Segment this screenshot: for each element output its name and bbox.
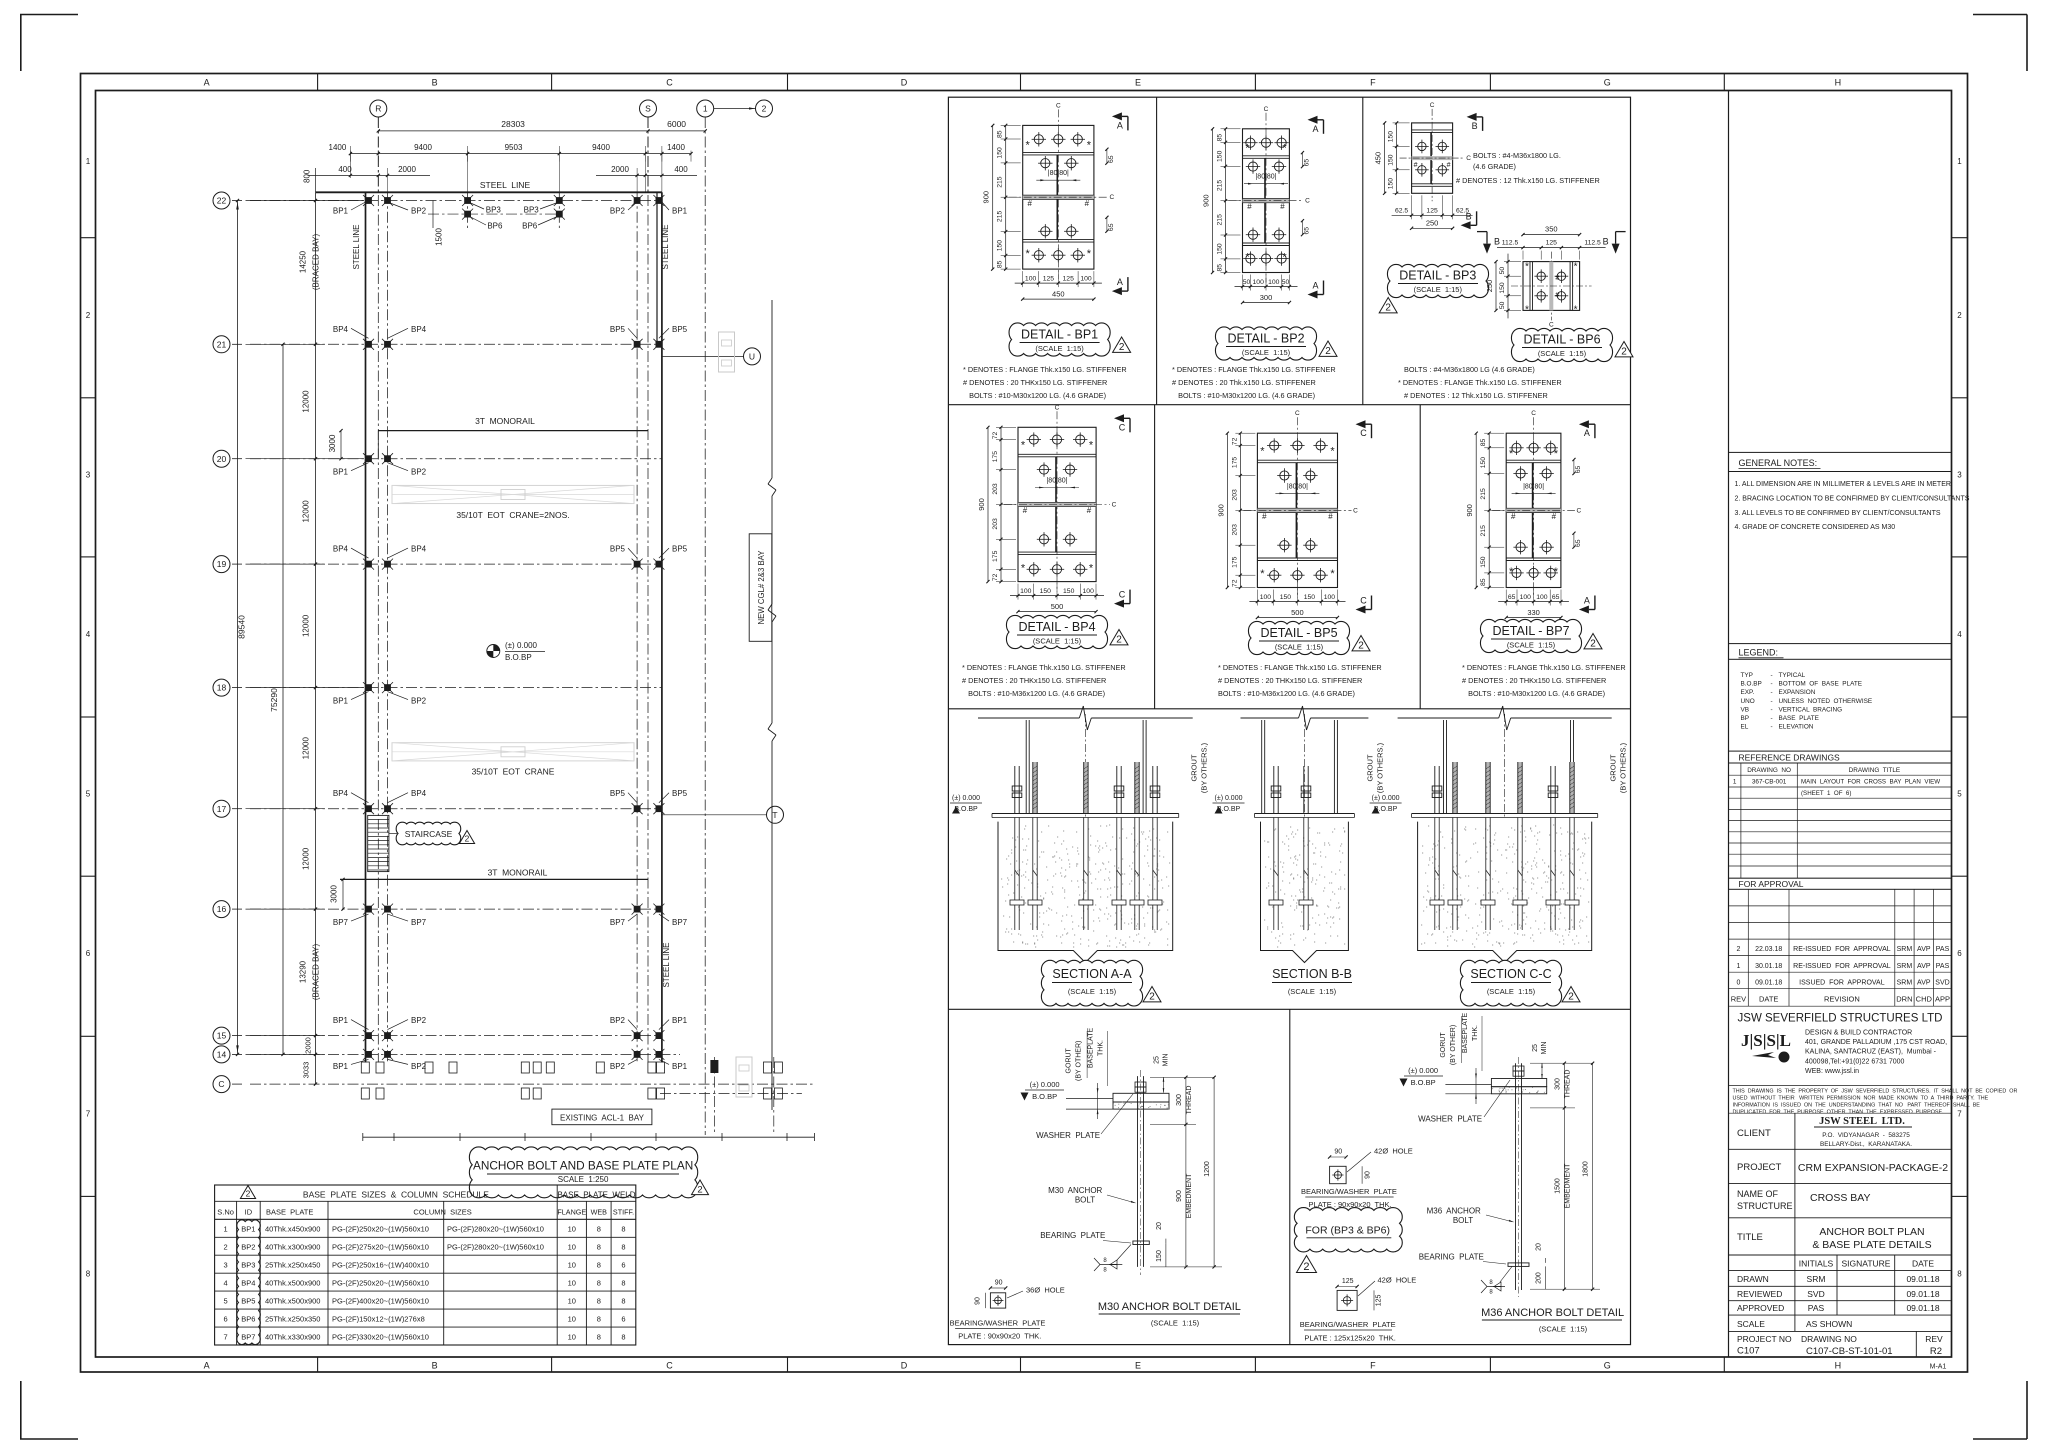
svg-text:1: 1	[224, 1225, 228, 1234]
svg-text:6: 6	[1957, 949, 1962, 958]
svg-text:GENERAL NOTES:: GENERAL NOTES:	[1739, 458, 1818, 468]
svg-text:STRUCTURE: STRUCTURE	[1737, 1201, 1793, 1211]
svg-text:150: 150	[997, 147, 1004, 159]
title block: signature rows	[1729, 1255, 1952, 1331]
svg-text:BOLT: BOLT	[1075, 1196, 1095, 1205]
svg-text:BASE PLATE: BASE PLATE	[1779, 715, 1819, 722]
detail DETAIL - BP5: notes	[1218, 663, 1382, 698]
detail DETAIL - BP1: plate	[1009, 102, 1115, 279]
svg-text:(SCALE 1:15): (SCALE 1:15)	[1539, 1325, 1588, 1334]
svg-text:M36 ANCHOR BOLT DETAIL: M36 ANCHOR BOLT DETAIL	[1481, 1307, 1624, 1319]
svg-text:(BRACED BAY): (BRACED BAY)	[312, 234, 321, 291]
svg-text:BP2: BP2	[610, 1016, 626, 1025]
svg-text:*: *	[1525, 304, 1529, 315]
svg-text:BP6: BP6	[522, 222, 538, 231]
svg-text:(SHEET 1 OF 6): (SHEET 1 OF 6)	[1801, 790, 1851, 797]
M36 bearing plate	[1508, 1263, 1529, 1267]
svg-text:(±) 0.000: (±) 0.000	[505, 641, 538, 650]
svg-text:B: B	[432, 78, 438, 88]
svg-text:300: 300	[1260, 293, 1273, 302]
svg-text:BASE PLATE SIZES & COLUMN: BASE PLATE SIZES & COLUMN SCHEDULE	[303, 1190, 489, 1200]
svg-text:25Thk.x250x450: 25Thk.x250x450	[265, 1261, 320, 1270]
plan: top dimension 28303 and 6000	[377, 119, 707, 133]
svg-text:20: 20	[1156, 1222, 1163, 1230]
svg-text:PG-(2F)400x20~(1W)560x10: PG-(2F)400x20~(1W)560x10	[332, 1297, 429, 1306]
svg-text:900: 900	[1202, 194, 1211, 207]
svg-text:THIS DRAWING IS THE PROPER: THIS DRAWING IS THE PROPERTY OF JSW SEVE…	[1733, 1089, 2018, 1095]
svg-text:2: 2	[1590, 639, 1596, 650]
svg-text:DUPLICATED FOR THE PURPOSE: DUPLICATED FOR THE PURPOSE OTHER THAN TH…	[1733, 1110, 1944, 1116]
svg-text:125: 125	[1063, 276, 1075, 283]
svg-text:ID: ID	[245, 1208, 253, 1217]
svg-text:S.No: S.No	[217, 1208, 234, 1217]
detail BP3: section arrows B	[1467, 113, 1477, 121]
svg-text:2: 2	[224, 1243, 228, 1252]
svg-text:BOLTS : #4-M36x1800 LG.: BOLTS : #4-M36x1800 LG.	[1473, 151, 1561, 160]
plan: level marker 0.000 B.O.BP	[487, 641, 545, 662]
svg-text:(SCALE 1:15): (SCALE 1:15)	[1507, 641, 1556, 650]
svg-text:C: C	[1055, 404, 1060, 411]
svg-text:1500: 1500	[435, 228, 444, 246]
svg-text:85: 85	[1217, 264, 1224, 272]
section A-A: concrete block	[998, 822, 1173, 963]
svg-text:PG-(2F)280x20~(1W)560x10: PG-(2F)280x20~(1W)560x10	[447, 1225, 544, 1234]
svg-text:72: 72	[992, 432, 999, 440]
svg-text:100: 100	[1020, 588, 1032, 595]
svg-text:M-A1: M-A1	[1930, 1364, 1947, 1371]
svg-text:900: 900	[1465, 504, 1474, 517]
svg-text:2: 2	[1358, 641, 1364, 652]
svg-text:#: #	[1555, 275, 1559, 282]
svg-text:8: 8	[597, 1297, 601, 1306]
svg-text:C: C	[1305, 198, 1310, 205]
svg-text:JSW SEVERFIELD STRUCTURES LTD: JSW SEVERFIELD STRUCTURES LTD	[1738, 1013, 1943, 1025]
svg-text:GROUT: GROUT	[1190, 754, 1199, 782]
svg-text:BEARING/WASHER PLATE: BEARING/WASHER PLATE	[1301, 1187, 1397, 1196]
section C-C: concrete block	[1418, 822, 1592, 963]
detail DETAIL - BP5: plate	[1243, 410, 1358, 597]
svg-text:H: H	[1835, 1361, 1842, 1371]
svg-text:#: #	[1552, 512, 1557, 521]
plan: horizontal grid lines with bubbles	[213, 192, 814, 1093]
svg-text:APPROVED: APPROVED	[1737, 1303, 1784, 1313]
svg-text:B: B	[1603, 237, 1609, 247]
svg-text:PG-(2F)150x12~(1W)276x8: PG-(2F)150x12~(1W)276x8	[332, 1315, 425, 1324]
svg-text:# DENOTES : 20 THKx150 LG. STI: # DENOTES : 20 THKx150 LG. STIFFENER	[1218, 676, 1362, 685]
svg-text:COLUMN SIZES: COLUMN SIZES	[413, 1208, 471, 1217]
svg-text:*: *	[1554, 448, 1559, 460]
detail BP6: dimensions	[1485, 225, 1606, 319]
svg-text:WEB: www.jssl.in: WEB: www.jssl.in	[1805, 1068, 1859, 1075]
title block: outer column	[1728, 91, 1730, 1358]
svg-text:65: 65	[1575, 466, 1582, 474]
svg-text:42Ø HOLE: 42Ø HOLE	[1378, 1276, 1417, 1285]
svg-text:A: A	[1584, 596, 1590, 606]
svg-text:BP4: BP4	[333, 325, 349, 334]
detail DETAIL - BP1: section arrows	[1112, 112, 1122, 120]
svg-text:3. ALL LEVELS TO BE CONFIRMED: 3. ALL LEVELS TO BE CONFIRMED BY CLIENT/…	[1735, 510, 1941, 517]
svg-text:STAIRCASE: STAIRCASE	[405, 829, 453, 839]
title block: general notes	[1729, 452, 1970, 531]
svg-text:FLANGE: FLANGE	[557, 1208, 586, 1217]
svg-text:U: U	[749, 352, 755, 362]
svg-text:E: E	[1135, 1361, 1141, 1371]
svg-text:BP1: BP1	[241, 1225, 255, 1234]
svg-text:BP2: BP2	[411, 468, 427, 477]
detail BP6: section arrows B	[1477, 232, 1626, 254]
svg-text:ANCHOR BOLT PLAN: ANCHOR BOLT PLAN	[1819, 1226, 1924, 1238]
detail BP3: dimensions	[1374, 121, 1473, 230]
plan: top grid bubbles R S 1 2	[370, 100, 773, 192]
svg-text:1400: 1400	[667, 143, 685, 152]
svg-text:90: 90	[975, 1297, 982, 1305]
svg-text:8: 8	[86, 1270, 91, 1279]
svg-text:72: 72	[1231, 437, 1238, 445]
svg-text:09.01.18: 09.01.18	[1906, 1303, 1939, 1313]
svg-text:BOLTS : #10-M30x1200 LG. (4.6: BOLTS : #10-M30x1200 LG. (4.6 GRADE)	[1172, 391, 1315, 400]
detail BP3: plate	[1400, 102, 1472, 201]
detail DETAIL - BP2: plate	[1229, 106, 1311, 283]
section B-B: anchor bolts	[1269, 766, 1313, 930]
svg-text:BP4: BP4	[333, 789, 349, 798]
svg-text:SCALE 1:250: SCALE 1:250	[558, 1175, 609, 1184]
section B-B: concrete block	[1261, 822, 1349, 963]
svg-text:3000: 3000	[328, 434, 337, 452]
svg-text:14250: 14250	[299, 250, 308, 273]
svg-text:19: 19	[217, 559, 227, 569]
svg-text:STEEL LINE: STEEL LINE	[661, 224, 670, 269]
svg-text:BP1: BP1	[333, 207, 349, 216]
svg-text:40Thk.x300x900: 40Thk.x300x900	[265, 1243, 320, 1252]
svg-text:BP5: BP5	[672, 789, 688, 798]
detail DETAIL - BP5: title cloud	[1248, 621, 1370, 654]
svg-text:BOLTS : #4-M36x1800 LG (4.6 GR: BOLTS : #4-M36x1800 LG (4.6 GRADE)	[1404, 365, 1535, 374]
svg-text:250: 250	[1485, 280, 1494, 293]
plan: main title ANCHOR BOLT AND BASE PLATE PLAN	[469, 1147, 708, 1198]
svg-text:DRAWING NO: DRAWING NO	[1747, 767, 1791, 774]
svg-text:90: 90	[995, 1280, 1003, 1287]
svg-text:2: 2	[465, 834, 470, 844]
svg-text:25: 25	[1154, 1056, 1161, 1064]
svg-text:2: 2	[762, 104, 767, 114]
svg-text:CROSS BAY: CROSS BAY	[1810, 1192, 1871, 1204]
detail DETAIL - BP4: plate	[1004, 404, 1117, 591]
svg-text:6: 6	[621, 1315, 625, 1324]
detail BP6: notes	[1398, 365, 1562, 400]
svg-text:350: 350	[1545, 225, 1558, 234]
svg-text:2: 2	[1119, 342, 1125, 353]
svg-text:900: 900	[1176, 1190, 1183, 1202]
title block: reference drawings table	[1729, 751, 1952, 878]
svg-text:400: 400	[674, 165, 688, 174]
svg-text:125: 125	[1376, 1294, 1383, 1306]
svg-text:85: 85	[997, 260, 1004, 268]
svg-text:3: 3	[1957, 470, 1962, 479]
svg-text:2. BRACING LOCATION TO BE CONF: 2. BRACING LOCATION TO BE CONFIRMED BY C…	[1735, 495, 1970, 502]
svg-text:09.01.18: 09.01.18	[1755, 979, 1782, 986]
plan: vertical steel/grid lines	[366, 117, 706, 1135]
svg-text:215: 215	[1480, 488, 1487, 500]
svg-text:ELEVATION: ELEVATION	[1779, 724, 1814, 731]
svg-text:BP4: BP4	[411, 325, 427, 334]
svg-text:(±) 0.000: (±) 0.000	[952, 795, 980, 802]
svg-text:2: 2	[1568, 992, 1574, 1003]
svg-text:# DENOTES : 20 THKx150 LG. STI: # DENOTES : 20 THKx150 LG. STIFFENER	[962, 676, 1106, 685]
svg-text:(SCALE 1:15): (SCALE 1:15)	[1275, 643, 1324, 652]
svg-text:9400: 9400	[414, 143, 432, 152]
svg-text:BP5: BP5	[610, 789, 626, 798]
svg-text:AS SHOWN: AS SHOWN	[1806, 1319, 1852, 1329]
section C-C: level marker and labels	[1370, 742, 1628, 813]
svg-text:8: 8	[621, 1279, 625, 1288]
svg-text:UNLESS NOTED OTHERWISE: UNLESS NOTED OTHERWISE	[1779, 698, 1873, 705]
plan: grid bubble U with leader	[662, 348, 761, 365]
svg-text:500: 500	[1051, 602, 1064, 611]
svg-text:*: *	[1525, 262, 1529, 273]
svg-text:#: #	[1085, 199, 1090, 208]
svg-text:8: 8	[1957, 1270, 1962, 1279]
svg-text:7: 7	[86, 1109, 91, 1118]
svg-text:B: B	[1494, 237, 1500, 247]
svg-text:0: 0	[1736, 979, 1740, 986]
section A-A: title	[1041, 960, 1161, 1006]
svg-text:2: 2	[1303, 1261, 1309, 1273]
svg-text:USED WITHOUT THEIR WRITTEN: USED WITHOUT THEIR WRITTEN PERMISSION NO…	[1733, 1096, 1989, 1102]
svg-text:215: 215	[997, 176, 1004, 188]
svg-text:15: 15	[217, 1031, 227, 1041]
svg-text:C: C	[1056, 102, 1061, 109]
svg-text:150: 150	[1480, 556, 1487, 568]
section C-C: column and base plate	[1398, 706, 1612, 818]
svg-text:5: 5	[1957, 790, 1962, 799]
svg-text:12000: 12000	[302, 500, 311, 523]
svg-text:MAIN LAYOUT FOR CROSS BAY: MAIN LAYOUT FOR CROSS BAY PLAN VIEW	[1801, 779, 1940, 786]
svg-text:203: 203	[1231, 489, 1238, 501]
svg-text:*: *	[1509, 448, 1514, 460]
svg-text:450: 450	[1374, 152, 1383, 165]
svg-text:215: 215	[997, 211, 1004, 223]
svg-text:C: C	[1430, 102, 1435, 109]
svg-text:TYP: TYP	[1741, 672, 1753, 679]
M30 bearing plate	[1133, 1241, 1149, 1245]
svg-text:PAS: PAS	[1936, 963, 1950, 970]
svg-text:UNO: UNO	[1741, 698, 1755, 705]
svg-text:100: 100	[1520, 594, 1532, 601]
svg-text:50: 50	[1499, 301, 1506, 309]
svg-text:BP3: BP3	[524, 206, 540, 215]
svg-text:22.03.18: 22.03.18	[1755, 946, 1782, 953]
svg-text:BP2: BP2	[411, 697, 427, 706]
svg-text:BP6: BP6	[241, 1315, 255, 1324]
plan: NEW CGL# 2&3 BAY box	[749, 534, 772, 642]
base plate schedule table	[215, 1185, 636, 1345]
svg-text:EXISTING ACL-1 BAY: EXISTING ACL-1 BAY	[560, 1114, 645, 1123]
svg-text:13290: 13290	[299, 960, 308, 983]
svg-text:150: 150	[1499, 282, 1506, 294]
svg-text:3: 3	[224, 1261, 228, 1270]
title block: company JSW Severfield	[1729, 1013, 2018, 1116]
svg-text:5: 5	[224, 1297, 228, 1306]
svg-text:BP3: BP3	[241, 1261, 255, 1270]
svg-text:C: C	[1360, 596, 1367, 606]
M30 rod	[1137, 1076, 1139, 1267]
svg-text:#: #	[1555, 292, 1559, 299]
svg-text:EXPANSION: EXPANSION	[1779, 689, 1816, 696]
svg-text:35/10T EOT CRANE: 35/10T EOT CRANE	[472, 767, 555, 777]
svg-text:100: 100	[1268, 279, 1280, 286]
svg-text:A: A	[204, 78, 210, 88]
svg-text:401, GRANDE PALLADIUM ,175 CST: 401, GRANDE PALLADIUM ,175 CST ROAD,	[1805, 1039, 1947, 1046]
svg-text:BP1: BP1	[672, 207, 688, 216]
svg-text:C: C	[1295, 410, 1300, 417]
svg-text:(BY OTHERS.): (BY OTHERS.)	[1200, 742, 1209, 793]
detail DETAIL - BP7: dimensions	[1465, 432, 1582, 619]
svg-text:40Thk.x500x900: 40Thk.x500x900	[265, 1279, 320, 1288]
svg-text:85: 85	[1480, 439, 1487, 447]
svg-text:JSW STEEL LTD.: JSW STEEL LTD.	[1819, 1116, 1905, 1127]
svg-text:203: 203	[992, 518, 999, 530]
svg-text:GROUT: GROUT	[1609, 754, 1618, 782]
svg-text:*: *	[1245, 252, 1250, 264]
svg-text:1500: 1500	[1555, 1178, 1562, 1194]
svg-text:* DENOTES : FLANGE Thk.x150 LG: * DENOTES : FLANGE Thk.x150 LG. STIFFENE…	[1218, 663, 1382, 672]
svg-text:*: *	[1574, 262, 1578, 273]
svg-text:10: 10	[568, 1297, 576, 1306]
svg-text:CHD: CHD	[1916, 995, 1933, 1004]
svg-text:203: 203	[992, 483, 999, 495]
svg-text:175: 175	[992, 550, 999, 562]
svg-text:16: 16	[217, 904, 227, 914]
plan: 3T monorail lower	[330, 868, 649, 911]
svg-text:M36 ANCHOR: M36 ANCHOR	[1427, 1207, 1481, 1216]
svg-text:150: 150	[1217, 243, 1224, 255]
svg-text:(BY OTHER): (BY OTHER)	[1450, 1025, 1457, 1065]
svg-text:09.01.18: 09.01.18	[1906, 1289, 1939, 1299]
svg-text:10: 10	[568, 1243, 576, 1252]
svg-text:F: F	[1370, 1361, 1376, 1371]
plan: left dimension chains	[236, 192, 364, 1085]
svg-text:BOLTS : #10-M36x1200 LG. (4.6: BOLTS : #10-M36x1200 LG. (4.6 GRADE)	[962, 689, 1105, 698]
svg-text:8: 8	[597, 1279, 601, 1288]
svg-text:BP2: BP2	[610, 1062, 626, 1071]
svg-text:GROUT: GROUT	[1365, 754, 1374, 782]
svg-text:2000: 2000	[304, 1037, 313, 1054]
svg-text:# DENOTES : 12 Thk.x150 LG. ST: # DENOTES : 12 Thk.x150 LG. STIFFENER	[1404, 391, 1548, 400]
svg-text:DATE: DATE	[1912, 1259, 1934, 1269]
svg-text:FOR (BP3 & BP6): FOR (BP3 & BP6)	[1305, 1225, 1390, 1237]
svg-text:*: *	[1260, 568, 1265, 580]
svg-text:SRM: SRM	[1897, 979, 1913, 986]
svg-text:BP7: BP7	[241, 1333, 255, 1342]
svg-text:BP4: BP4	[411, 545, 427, 554]
svg-text:BP5: BP5	[610, 545, 626, 554]
svg-text:PG-(2F)280x20~(1W)560x10: PG-(2F)280x20~(1W)560x10	[447, 1243, 544, 1252]
svg-text:C: C	[666, 1361, 673, 1371]
svg-text:4: 4	[1957, 630, 1962, 639]
svg-text:EMBEDMENT: EMBEDMENT	[1186, 1173, 1193, 1218]
svg-text:1: 1	[703, 104, 708, 114]
svg-text:STIFF.: STIFF.	[613, 1208, 634, 1217]
svg-text:-: -	[1771, 698, 1773, 705]
FOR BP3 BP6 cloud	[1294, 1208, 1402, 1252]
svg-text:100: 100	[1536, 594, 1548, 601]
svg-text:T: T	[772, 810, 777, 820]
svg-text:C: C	[1577, 507, 1582, 514]
svg-text:8: 8	[597, 1225, 601, 1234]
svg-text:400098,Tel:+91(0)22 6731 7000: 400098,Tel:+91(0)22 6731 7000	[1805, 1058, 1905, 1065]
svg-text:2: 2	[246, 1189, 251, 1199]
svg-text:*: *	[1089, 440, 1094, 452]
plan: 3T monorail upper	[328, 416, 648, 460]
svg-text:# DENOTES : 12 Thk.x150 LG. ST: # DENOTES : 12 Thk.x150 LG. STIFFENER	[1456, 176, 1600, 185]
svg-text:8: 8	[621, 1297, 625, 1306]
svg-text:35/10T EOT CRANE=2NOS.: 35/10T EOT CRANE=2NOS.	[456, 510, 569, 520]
svg-text:F: F	[1370, 78, 1376, 88]
svg-text:INITIALS: INITIALS	[1799, 1259, 1834, 1269]
svg-text:*: *	[1574, 304, 1578, 315]
svg-text:TITLE: TITLE	[1737, 1232, 1763, 1243]
svg-text:BP2: BP2	[411, 1016, 427, 1025]
section B-B: level marker and labels	[1213, 742, 1385, 813]
svg-text:3: 3	[86, 470, 91, 479]
svg-text:G: G	[1604, 78, 1611, 88]
section C-C: anchor bolts	[1430, 762, 1579, 930]
svg-text:BP4: BP4	[241, 1279, 255, 1288]
svg-text:A: A	[1117, 120, 1123, 130]
svg-text:* DENOTES : FLANGE Thk.x150 LG: * DENOTES : FLANGE Thk.x150 LG. STIFFENE…	[1172, 365, 1336, 374]
svg-text:7: 7	[224, 1333, 228, 1342]
svg-text:100: 100	[1083, 588, 1095, 595]
svg-text:SRM: SRM	[1807, 1274, 1826, 1284]
svg-text:SCALE: SCALE	[1737, 1319, 1765, 1329]
svg-text:PG-(2F)330x20~(1W)560x10: PG-(2F)330x20~(1W)560x10	[332, 1333, 429, 1342]
svg-text:PAS: PAS	[1936, 946, 1950, 953]
svg-text:* DENOTES : FLANGE Thk.x150 LG: * DENOTES : FLANGE Thk.x150 LG. STIFFENE…	[962, 663, 1126, 672]
svg-text:FOR APPROVAL: FOR APPROVAL	[1739, 879, 1804, 889]
svg-text:203: 203	[1231, 524, 1238, 536]
svg-text:|80|80|: |80|80|	[1255, 174, 1276, 181]
detail BP6: title cloud	[1511, 328, 1633, 361]
detail DETAIL - BP7: section arrows	[1579, 420, 1589, 428]
svg-text:112.5: 112.5	[1502, 240, 1519, 247]
svg-text:8: 8	[597, 1261, 601, 1270]
svg-text:C: C	[1112, 502, 1117, 509]
svg-text:BP: BP	[1741, 715, 1750, 722]
svg-text:A: A	[1117, 277, 1123, 287]
svg-text:BP6: BP6	[487, 222, 503, 231]
plan: column markers and BP labels	[333, 195, 688, 1071]
svg-text:MIN: MIN	[1163, 1054, 1170, 1067]
svg-text:KALINA, SANTACRUZ (EAST), Mum: KALINA, SANTACRUZ (EAST), Mumbai -	[1805, 1049, 1937, 1056]
svg-text:(SCALE 1:15): (SCALE 1:15)	[1538, 349, 1587, 358]
svg-text:C107: C107	[1737, 1346, 1760, 1357]
inner border	[96, 91, 1952, 1358]
detail DETAIL - BP5: section arrows	[1356, 420, 1366, 428]
svg-text:BASE PLATE: BASE PLATE	[266, 1208, 313, 1217]
svg-text:400: 400	[338, 165, 352, 174]
svg-text:ISSUED FOR APPROVAL: ISSUED FOR APPROVAL	[1799, 979, 1885, 986]
svg-text:150: 150	[1063, 588, 1075, 595]
svg-text:150: 150	[1388, 131, 1395, 143]
svg-text:215: 215	[1217, 180, 1224, 192]
svg-text:2: 2	[1385, 303, 1391, 314]
svg-text:#: #	[1511, 512, 1516, 521]
svg-text:(SCALE 1:15): (SCALE 1:15)	[1242, 348, 1291, 357]
svg-text:3T MONORAIL: 3T MONORAIL	[488, 868, 548, 878]
svg-text:VB: VB	[1741, 706, 1750, 713]
svg-text:*: *	[1509, 566, 1514, 578]
section B-B: title	[1272, 967, 1352, 996]
